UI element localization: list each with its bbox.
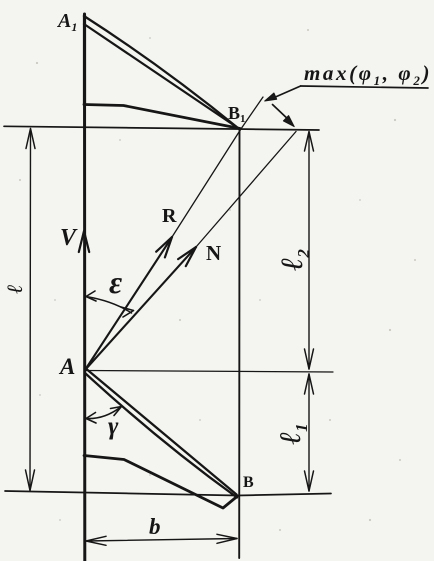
top horizontal extension line bbox=[4, 126, 319, 130]
underline of max label bbox=[301, 86, 428, 88]
gamma arc right arrowhead bbox=[111, 407, 122, 416]
svg-text:V: V bbox=[60, 225, 78, 251]
left dimension line L bbox=[29, 130, 32, 490]
svg-text:max(φ1, φ2): max(φ1, φ2) bbox=[304, 61, 432, 88]
right dimension line l1 bbox=[308, 374, 310, 491]
gamma arc left arrowhead bbox=[86, 413, 96, 424]
epsilon arc left arrowhead bbox=[86, 291, 96, 301]
max angle lower segment bbox=[273, 105, 292, 123]
right dimension line l2 bbox=[308, 132, 310, 369]
l2 bottom arrowhead bbox=[305, 349, 314, 369]
l2 top arrowhead bbox=[305, 132, 314, 152]
vector N segment from A bbox=[85, 247, 196, 370]
svg-text:γ: γ bbox=[108, 413, 119, 440]
bottom dimension line b bbox=[86, 539, 237, 542]
max angle upper filled arrowhead bbox=[265, 93, 277, 101]
gamma angle arc bbox=[86, 408, 120, 419]
N construction line to top line bbox=[196, 132, 296, 248]
epsilon angle arc bbox=[86, 297, 132, 314]
bottom horizontal extension line bbox=[5, 491, 331, 496]
L top arrowhead bbox=[26, 129, 35, 149]
top triangle hypotenuse inner line bbox=[84, 24, 240, 129]
lower triangle lower edge with dip under B bbox=[84, 456, 237, 509]
svg-text:ℓ: ℓ bbox=[2, 284, 27, 293]
svg-text:A: A bbox=[58, 354, 75, 379]
epsilon arc right arrowhead bbox=[121, 307, 134, 317]
vector V arrowhead on vertical line bbox=[79, 231, 89, 252]
top triangle vertical edge bbox=[83, 15, 86, 105]
svg-text:b: b bbox=[149, 514, 161, 539]
lower triangle hypotenuse upper line A-B bbox=[87, 370, 237, 495]
vector N arrowhead bbox=[178, 247, 196, 266]
svg-text:R: R bbox=[162, 205, 177, 227]
max angle leader segment upper bbox=[272, 86, 301, 99]
svg-text:B: B bbox=[243, 474, 254, 491]
top triangle lower edge bbox=[84, 105, 240, 129]
vector R segment from A bbox=[85, 237, 172, 370]
l1 bottom arrowhead bbox=[305, 471, 314, 491]
R construction line through B1 extended bbox=[172, 97, 263, 237]
l1 top arrowhead bbox=[305, 374, 314, 394]
b right arrowhead bbox=[217, 534, 237, 543]
vertical line through B1 and B bbox=[238, 128, 240, 558]
max angle lower filled arrowhead bbox=[283, 116, 294, 127]
svg-text:ε: ε bbox=[109, 264, 122, 300]
svg-text:N: N bbox=[206, 241, 221, 265]
lower triangle hypotenuse lower line bbox=[85, 373, 237, 498]
main vertical line through A1 and A bbox=[83, 14, 86, 561]
vector R arrowhead bbox=[156, 237, 172, 257]
mid horizontal extension line (level of A) bbox=[85, 371, 333, 373]
top triangle hypotenuse outer line A1-B1 bbox=[84, 16, 240, 130]
L bottom arrowhead bbox=[26, 470, 35, 491]
b left arrowhead bbox=[86, 536, 106, 545]
